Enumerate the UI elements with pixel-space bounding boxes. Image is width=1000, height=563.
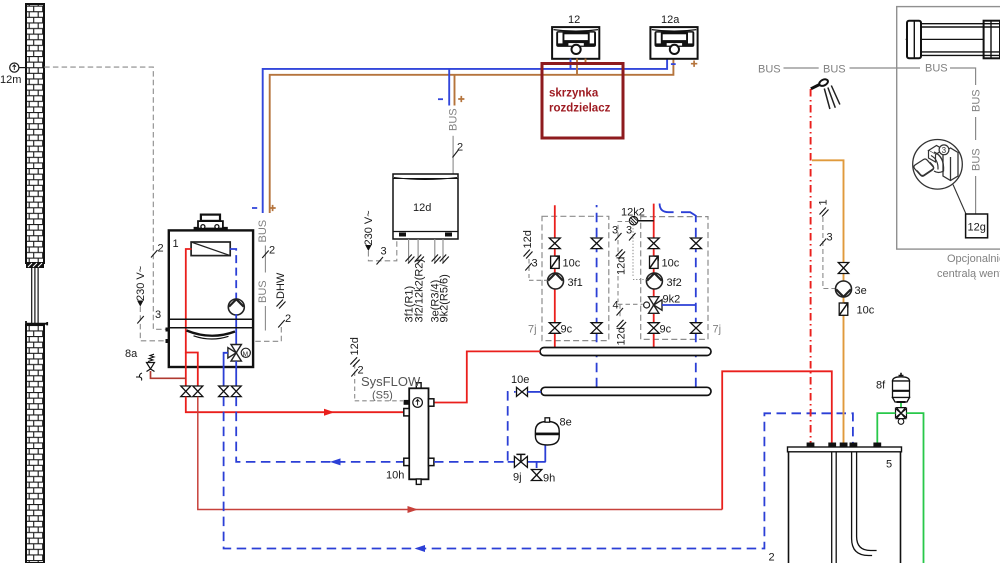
svg-text:2: 2 [158,243,164,255]
svg-text:3: 3 [612,225,618,237]
BUS into room [897,67,920,69]
svg-text:BUS: BUS [823,64,846,76]
group2 blue crossover hook [660,204,674,213]
thermostat 12 wires [570,59,572,69]
svg-text:3: 3 [532,258,538,270]
svg-text:7j: 7j [713,324,722,336]
hydraulic separator 10h [386,383,434,485]
TRV detail circle [913,140,963,190]
DHW double slash [277,300,286,309]
svg-text:12d: 12d [349,337,361,355]
safety valve 8a [125,348,186,381]
svg-text:3e: 3e [855,285,867,297]
svg-text:10h: 10h [386,470,404,482]
tank internal pipe 2 with bend [852,452,877,556]
svg-text:2: 2 [457,142,463,154]
BUS wire blue from boiler to 12a [263,59,667,213]
group2 pump 3f2 [646,273,681,289]
12d output wires [404,239,451,323]
svg-text:12g: 12g [968,222,986,234]
red CH supply to separator [186,397,409,413]
group2 red supply pipe [653,204,655,348]
svg-text:1: 1 [173,238,179,250]
svg-text:9k2(R5/6): 9k2(R5/6) [439,274,451,322]
group2 control cables [612,222,647,346]
svg-text:DHW: DHW [275,272,287,299]
red DHW supply long run [198,397,722,510]
group2 blue return pipe [695,215,697,387]
drain valve 9h [531,470,555,485]
thermostat 12 [552,14,599,59]
group1 supply valve [549,238,560,249]
group2 valve 9c [648,323,671,336]
wall upper hatched cap [26,262,44,268]
circ check valve 10c [839,303,875,317]
8f connection green stub [900,403,902,408]
svg-text:9j: 9j [513,472,522,484]
arrow on separator return [330,458,341,465]
svg-text:BUS: BUS [925,63,948,75]
230V~ label left of 12d [363,210,397,264]
arcs [934,152,944,173]
svg-text:230 V~: 230 V~ [135,266,147,301]
burner [187,331,236,336]
thermostat 12a [650,14,697,59]
svg-text:10c: 10c [662,258,680,270]
svg-text:12a: 12a [661,14,680,26]
group1 control cable 12d [522,230,548,280]
leader to 12g [953,185,966,215]
heat exchanger [191,242,230,256]
DHW dashed line into boiler [254,327,281,341]
circ shutoff valve [838,263,848,274]
blue return from tank long run [224,397,853,549]
group1 check valve 10c [551,256,581,269]
svg-text:BUS: BUS [257,280,269,303]
svg-text:BUS: BUS [257,220,269,243]
svg-text:M: M [243,351,248,358]
svg-text:10c: 10c [563,258,581,270]
green pipe left to tank [877,413,895,442]
svg-text:12: 12 [568,14,580,26]
tank top connection stubs [807,443,882,448]
svg-text:3: 3 [155,309,161,321]
group2 return valve bottom [691,323,702,334]
blue pipes from 3way down [235,361,237,386]
boiler U1 body [169,230,253,367]
chimney wall upper section [26,4,44,263]
svg-text:3: 3 [942,146,947,155]
knob [914,159,934,176]
red from separator to manifold [433,351,540,402]
svg-text:12d: 12d [522,230,534,248]
group2 blue to mixing valve [662,304,696,306]
svg-text:12d: 12d [616,327,628,345]
svg-text:9c: 9c [660,324,672,336]
svg-text:2: 2 [358,365,364,377]
svg-text:rozdzielacz: rozdzielacz [549,103,611,115]
circ control cable 1 [818,199,837,288]
group1 return valve bottom [591,323,602,334]
svg-text:3f2: 3f2 [667,277,682,289]
svg-text:3f1: 3f1 [568,277,583,289]
DHW line slash 2 [278,320,285,328]
blue return from separator [236,397,409,462]
group1 pump 3f1 [548,273,583,289]
blue internal pipe from exchanger to pump [230,249,236,299]
group2 check valve 10c [650,256,680,269]
svg-text:12d: 12d [616,257,628,275]
dashed line from 12m [44,67,169,329]
group2 return valve top [691,238,702,249]
manifold supply [540,348,711,356]
group2 supply valve [648,238,659,249]
SysFLOW sensor cable [355,364,403,401]
fill valve 9j [513,454,527,483]
svg-text:2: 2 [285,313,291,325]
svg-text:3: 3 [827,232,833,244]
heating group 1 dashed enclosure [542,216,609,340]
blue line 9j to 8e [508,461,546,463]
arrow on DHW supply [408,506,419,513]
svg-text:9c: 9c [561,324,573,336]
group1 blue return pipe [596,205,598,387]
red riser to tank [722,371,832,509]
230V~ label left of boiler [135,266,169,341]
red pipe from exchanger down [186,249,198,386]
controller 12d box [393,174,458,239]
minus plus at boiler [252,207,257,209]
wall break pipe [32,268,38,323]
svg-text:12m: 12m [0,74,21,86]
svg-text:3: 3 [626,225,632,237]
svg-text:(S5): (S5) [372,390,393,402]
svg-text:10e: 10e [511,374,529,386]
svg-text:2: 2 [769,552,775,563]
valve below boiler red 1 [181,386,191,397]
svg-text:SysFLOW: SysFLOW [361,374,421,389]
shower head [811,78,840,109]
tank internal pipe 1 [832,452,837,563]
slash 2 on 12m line [151,250,158,258]
expansion vessel 8e [535,417,572,446]
top bracket [929,146,944,155]
svg-text:9h: 9h [543,473,555,485]
svg-text:2: 2 [269,245,275,257]
12a minus plus [671,63,676,65]
sensor 12k2 [621,207,654,225]
svg-text:230 V~: 230 V~ [363,210,375,245]
cap valve below 8f [896,408,907,425]
boiler pump [228,299,244,315]
svg-text:BUS: BUS [971,148,983,171]
group1 return valve top [591,238,602,249]
mixing valve 9k2 [644,294,681,314]
svg-text:1: 1 [818,199,830,205]
skrzynka rozdzielacz box [542,64,623,139]
boiler divider lines [169,319,253,328]
boiler flue collar [194,215,228,229]
controller 12g [966,214,988,238]
group1 red supply pipe [554,205,556,347]
green pipe right down [907,413,924,563]
heating group 2 dashed enclosure [641,217,708,340]
arrow on tank return [415,545,426,552]
circulation pump 3e [836,281,867,297]
manifold return [541,387,711,395]
room detail box [897,7,1000,250]
tank 5 body [788,447,902,563]
grey line below BUS2 to boiler [264,306,266,331]
valve slab [943,148,958,157]
svg-text:8a: 8a [125,348,138,360]
3-way valve with motor M [228,345,251,362]
svg-text:4: 4 [613,300,619,312]
blue from separator to 10e and manifold [434,392,516,462]
svg-text:5: 5 [886,459,892,471]
svg-text:BUS: BUS [448,108,460,131]
blue pipe pump to 3way [235,314,237,345]
BUS drop to 12d [438,69,464,174]
sensor 12m [0,63,26,86]
radiator [906,21,1000,59]
svg-text:3: 3 [381,246,387,258]
svg-text:BUS: BUS [971,89,983,112]
valve below boiler blue 2 [231,386,241,397]
3 bubble [939,145,949,155]
svg-text:3f2/12k2(R2): 3f2/12k2(R2) [414,259,426,323]
DHW red dash-dot line [810,89,812,447]
boiler left wall connection stubs [166,328,170,344]
grey BUS line segment with slash 2 [264,246,266,273]
svg-text:10c: 10c [857,305,875,317]
svg-text:7j: 7j [528,324,537,336]
valve below boiler red 2 [193,386,203,397]
valve 10e [511,374,541,396]
svg-text:9k2: 9k2 [663,294,681,306]
svg-text:skrzynka: skrzynka [549,88,599,100]
svg-text:8f: 8f [876,380,886,392]
BUS wire brown from boiler to 12a [270,59,674,213]
red pipe continues below valve V1 [185,353,187,387]
svg-text:8e: 8e [560,417,572,429]
expansion vessel 8f [876,373,910,402]
svg-text:Opcjonalnie z: Opcjonalnie z [947,253,1000,265]
arrow on CH supply [324,409,335,416]
svg-text:BUS: BUS [758,64,781,76]
DHW circulation orange line [812,160,844,447]
svg-text:12d: 12d [413,202,431,214]
svg-text:centralą wentylacyjną: centralą wentylacyjną [937,268,1000,280]
chimney wall lower section [26,325,44,563]
group1 valve 9c [549,323,572,336]
wall lower cap plate [26,321,47,325]
valve below boiler blue 1 [219,386,229,397]
